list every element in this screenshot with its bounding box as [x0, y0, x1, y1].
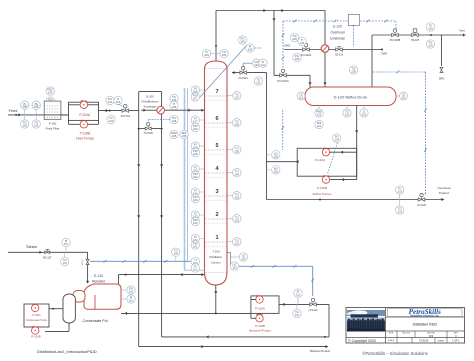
- svg-text:Feed: Feed: [9, 109, 18, 113]
- svg-text:121: 121: [317, 113, 322, 117]
- svg-text:107: 107: [64, 242, 69, 246]
- svg-text:P-100A: P-100A: [79, 113, 91, 117]
- svg-text:SRV: SRV: [439, 77, 445, 81]
- svg-text:P-110A: P-110A: [255, 307, 265, 311]
- svg-text:E-110: E-110: [94, 274, 103, 278]
- svg-text:105: 105: [34, 105, 39, 109]
- svg-text:121: 121: [317, 124, 322, 128]
- svg-text:Reboiler: Reboiler: [92, 279, 106, 283]
- svg-text:FCV121: FCV121: [239, 77, 249, 80]
- svg-text:126: 126: [292, 37, 297, 41]
- svg-text:122: 122: [401, 96, 406, 100]
- svg-text:123: 123: [397, 210, 402, 214]
- svg-text:LCV110: LCV110: [309, 309, 318, 312]
- svg-text:1 OF 1: 1 OF 1: [452, 340, 460, 343]
- svg-text:107: 107: [193, 97, 198, 101]
- svg-text:107: 107: [62, 261, 67, 265]
- svg-text:102: 102: [193, 221, 198, 225]
- svg-text:6: 6: [215, 116, 218, 122]
- svg-text:LCV120: LCV120: [417, 204, 427, 207]
- svg-text:106: 106: [193, 127, 198, 131]
- svg-text:101: 101: [193, 268, 198, 272]
- svg-text:E-100: E-100: [146, 95, 154, 99]
- svg-text:P-120A: P-120A: [315, 158, 325, 162]
- svg-text:101: 101: [235, 241, 240, 245]
- svg-text:FCV120A: FCV120A: [301, 54, 312, 57]
- svg-text:Product: Product: [439, 191, 450, 195]
- svg-text:101: 101: [193, 245, 198, 249]
- svg-text:Steam: Steam: [26, 245, 37, 249]
- svg-text:Reflux Pumps: Reflux Pumps: [313, 192, 332, 196]
- svg-text:103: 103: [235, 195, 240, 199]
- svg-text:103: 103: [193, 198, 198, 202]
- svg-text:MS107: MS107: [82, 258, 84, 265]
- svg-text:107: 107: [235, 95, 240, 99]
- svg-text:120: 120: [274, 154, 279, 158]
- svg-text:©PetroSkills – Simulation Solu: ©PetroSkills – Simulation Solutions: [362, 351, 427, 356]
- svg-text:110: 110: [232, 266, 237, 270]
- svg-text:121: 121: [299, 96, 304, 100]
- svg-text:T-100: T-100: [212, 250, 220, 254]
- svg-text:PCV120A: PCV120A: [277, 79, 289, 83]
- svg-text:3: 3: [215, 189, 218, 195]
- svg-text:109: 109: [240, 40, 245, 44]
- svg-text:104: 104: [235, 172, 240, 176]
- svg-text:Overhead: Overhead: [331, 31, 345, 35]
- svg-text:DistillationLan2_IntroductionP: DistillationLan2_IntroductionP&ID: [37, 349, 97, 354]
- svg-text:105: 105: [193, 152, 198, 156]
- svg-text:104: 104: [174, 252, 179, 256]
- svg-text:103: 103: [109, 119, 114, 123]
- svg-text:124: 124: [334, 138, 339, 142]
- svg-text:PCV120B: PCV120B: [390, 39, 401, 42]
- svg-text:108: 108: [182, 134, 187, 138]
- svg-text:TCV105: TCV105: [144, 132, 154, 135]
- svg-text:303: 303: [429, 334, 434, 338]
- svg-text:Feed Pumps: Feed Pumps: [76, 136, 94, 140]
- svg-text:7/7/2020: 7/7/2020: [419, 340, 429, 343]
- svg-text:126: 126: [295, 57, 300, 61]
- svg-text:105: 105: [22, 124, 27, 128]
- svg-text:111: 111: [296, 293, 301, 297]
- svg-text:120: 120: [345, 113, 350, 117]
- svg-text:P-120B: P-120B: [317, 186, 327, 190]
- svg-text:125: 125: [428, 27, 433, 31]
- svg-text:106: 106: [235, 122, 240, 126]
- svg-text:Exchanger: Exchanger: [144, 105, 157, 109]
- svg-text:Feed Filter: Feed Filter: [46, 127, 60, 131]
- svg-text:110: 110: [129, 290, 134, 294]
- svg-text:HS-125: HS-125: [411, 39, 420, 42]
- svg-text:120: 120: [274, 169, 279, 173]
- svg-text:D-120 Reflux Drum: D-120 Reflux Drum: [334, 95, 367, 100]
- svg-text:123: 123: [397, 190, 402, 194]
- svg-text:Distillation: Distillation: [209, 255, 222, 259]
- svg-text:121: 121: [261, 63, 266, 67]
- svg-text:Overhead: Overhead: [437, 186, 451, 190]
- svg-text:MS-107: MS-107: [43, 257, 52, 260]
- svg-text:109: 109: [204, 53, 209, 57]
- svg-text:Condensate Pot: Condensate Pot: [82, 319, 107, 323]
- svg-text:105: 105: [235, 149, 240, 153]
- svg-text:126: 126: [300, 41, 305, 45]
- svg-text:Bottoms Pumps: Bottoms Pumps: [249, 329, 271, 333]
- svg-text:111: 111: [295, 313, 300, 317]
- svg-text:Feed/Bottoms: Feed/Bottoms: [142, 100, 159, 104]
- svg-text:E-120: E-120: [333, 25, 342, 29]
- svg-text:P-130A: P-130A: [32, 314, 41, 317]
- svg-text:121: 121: [256, 81, 261, 85]
- svg-text:106: 106: [172, 105, 177, 109]
- svg-text:Condenser: Condenser: [330, 37, 347, 41]
- svg-text:110: 110: [241, 257, 246, 261]
- svg-text:7: 7: [215, 89, 218, 95]
- svg-text:CWR: CWR: [381, 52, 387, 56]
- svg-text:Simulation Solutions, Inc.: Simulation Solutions, Inc.: [410, 314, 440, 317]
- svg-text:109: 109: [222, 53, 227, 57]
- svg-text:102: 102: [235, 218, 240, 222]
- svg-text:2: 2: [215, 212, 218, 218]
- svg-text:Condensate Pumps: Condensate Pumps: [26, 319, 48, 322]
- svg-text:108: 108: [172, 134, 177, 138]
- svg-text:P-110B: P-110B: [255, 324, 265, 328]
- svg-text:Bottoms Product: Bottoms Product: [310, 349, 330, 353]
- svg-text:110: 110: [129, 299, 134, 303]
- svg-text:120: 120: [362, 113, 367, 117]
- svg-text:5: 5: [215, 143, 218, 149]
- svg-text:Distillation P&ID: Distillation P&ID: [413, 322, 438, 326]
- svg-text:P&ID NO: P&ID NO: [402, 333, 410, 335]
- svg-text:109: 109: [248, 48, 253, 52]
- svg-text:SIZE: SIZE: [389, 333, 394, 335]
- svg-text:1: 1: [215, 235, 218, 241]
- svg-text:125: 125: [428, 44, 433, 48]
- svg-text:SHEET: SHEET: [438, 341, 446, 343]
- svg-text:P-130B: P-130B: [31, 335, 40, 339]
- svg-text:105: 105: [34, 124, 39, 128]
- svg-text:105: 105: [48, 91, 53, 95]
- svg-text:105: 105: [22, 105, 27, 109]
- svg-text:Vent: Vent: [459, 28, 465, 32]
- svg-text:P-100B: P-100B: [80, 132, 91, 136]
- svg-text:104: 104: [193, 175, 198, 179]
- svg-text:F-100: F-100: [49, 121, 57, 125]
- svg-text:© Copyright 2020: © Copyright 2020: [348, 339, 376, 343]
- svg-text:CWS: CWS: [284, 43, 290, 47]
- svg-text:126: 126: [351, 70, 356, 74]
- svg-text:HS-126: HS-126: [335, 53, 344, 56]
- svg-text:101: 101: [116, 100, 121, 104]
- svg-text:SCALE: SCALE: [388, 339, 395, 342]
- svg-text:105: 105: [172, 119, 177, 123]
- svg-text:Column: Column: [211, 261, 221, 265]
- svg-text:101: 101: [108, 100, 113, 104]
- svg-text:FCV101: FCV101: [121, 115, 131, 118]
